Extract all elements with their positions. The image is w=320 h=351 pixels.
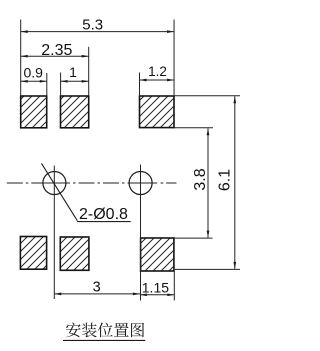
svg-text:1.2: 1.2: [148, 64, 167, 79]
svg-text:5.3: 5.3: [82, 17, 103, 34]
svg-text:0.9: 0.9: [23, 65, 43, 81]
svg-text:1: 1: [69, 64, 77, 80]
svg-text:2-Ø0.8: 2-Ø0.8: [79, 206, 128, 223]
svg-text:1.15: 1.15: [142, 280, 169, 296]
svg-text:6.1: 6.1: [216, 169, 233, 191]
svg-text:2.35: 2.35: [41, 42, 72, 59]
svg-text:3.8: 3.8: [192, 168, 209, 190]
svg-text:3: 3: [93, 280, 101, 296]
